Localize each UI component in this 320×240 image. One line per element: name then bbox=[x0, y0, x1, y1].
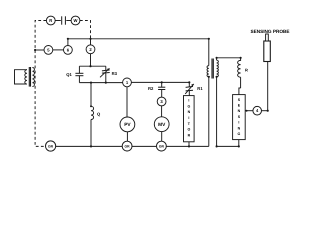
wire secondary bottom to sensing box bbox=[217, 77, 239, 147]
svg-text:R1: R1 bbox=[197, 86, 203, 91]
wire upper rail of Q1/R3 network bbox=[79, 65, 105, 67]
wire T2 primary bottom to bottom rail bbox=[208, 77, 210, 147]
node circle2 branch joins upper rail bbox=[89, 65, 91, 67]
svg-text:G: G bbox=[238, 132, 241, 136]
relay coil R bbox=[238, 58, 241, 77]
transformer T1 core bbox=[28, 67, 30, 87]
wire 2 down to network bbox=[90, 54, 92, 66]
svg-text:MV: MV bbox=[158, 122, 166, 128]
wire 5 to 6 bbox=[53, 49, 64, 51]
svg-text:R3: R3 bbox=[112, 71, 118, 76]
wire sensing box to terminal 4 bbox=[245, 110, 253, 112]
node at rail over 6 bbox=[67, 38, 69, 40]
wire coil to bottom rail bbox=[90, 120, 92, 147]
label SENSING vertical bbox=[238, 98, 241, 136]
svg-text:GR: GR bbox=[159, 145, 165, 149]
node lower rail / R3 bbox=[105, 82, 107, 84]
svg-text:I: I bbox=[238, 121, 239, 125]
trimmer resistor R1 bbox=[188, 81, 190, 83]
sensing probe body bbox=[264, 41, 271, 62]
svg-text:PV: PV bbox=[124, 122, 131, 128]
transformer T2 secondary winding bbox=[217, 60, 219, 77]
svg-text:I: I bbox=[188, 116, 189, 120]
svg-text:G: G bbox=[188, 104, 191, 108]
transformer T1 primary winding bbox=[25, 70, 27, 84]
meter PV bbox=[120, 117, 135, 132]
wire 3 to MV bbox=[161, 106, 163, 117]
svg-text:R: R bbox=[245, 67, 248, 72]
svg-text:SENSING PROBE: SENSING PROBE bbox=[250, 29, 289, 34]
capacitor R2 bbox=[161, 82, 163, 87]
wire: dashed from W down to terminal 2 bbox=[80, 21, 91, 39]
capacitor Q1 bbox=[78, 66, 80, 73]
svg-text:Q1: Q1 bbox=[66, 72, 72, 77]
wire middle rail from 1 to R1 bbox=[131, 81, 189, 83]
svg-text:N: N bbox=[188, 110, 191, 114]
node T2 secondary top bbox=[216, 57, 218, 59]
wire ignitor to bottom rail bbox=[188, 142, 190, 147]
wire secondary top to relay coil bbox=[217, 58, 241, 60]
svg-text:R: R bbox=[188, 133, 191, 137]
node bottom rail / coil branch bbox=[90, 145, 92, 147]
node bottom rail / ignitor branch bbox=[188, 145, 190, 147]
node at coil R top bbox=[240, 57, 242, 59]
wire MV to GR bbox=[161, 132, 163, 142]
transformer T1 secondary winding bbox=[32, 68, 34, 87]
sensing probe tip bbox=[266, 34, 269, 41]
terminal 4 bbox=[253, 106, 262, 115]
terminal R bbox=[46, 16, 55, 25]
terminal GR left bbox=[46, 141, 56, 151]
svg-text:O: O bbox=[188, 128, 191, 132]
wire down to coil Q bbox=[90, 83, 92, 107]
wire: dashed thermostat field wiring left loop bbox=[35, 21, 46, 147]
transformer T2 primary top lead bbox=[208, 39, 210, 66]
meter MV bbox=[154, 117, 169, 132]
wire 1 to PV bbox=[126, 87, 128, 117]
wire PV to GR bbox=[126, 132, 128, 141]
sensing box bbox=[233, 95, 246, 140]
wire top rail bbox=[68, 38, 209, 40]
svg-text:N: N bbox=[238, 109, 241, 113]
trimmer capacitor R3 bbox=[105, 66, 107, 70]
wire contact to W bbox=[66, 20, 71, 22]
wire to terminal 5 bbox=[35, 49, 44, 51]
terminal W bbox=[71, 16, 80, 25]
node lower rail / down branch bbox=[90, 82, 92, 84]
node at rail corner bbox=[208, 38, 210, 40]
wire lower rail of network to node 1 bbox=[79, 82, 122, 84]
wire 4 to probe riser bbox=[262, 110, 268, 112]
terminal GR under PV bbox=[122, 141, 132, 151]
wire 6 up to top rail bbox=[67, 39, 69, 46]
inductor Q bbox=[91, 106, 94, 119]
wire bottom rail bbox=[55, 145, 122, 147]
thermostat contact bars bbox=[61, 16, 63, 24]
terminal 5 bbox=[44, 46, 53, 55]
svg-text:I: I bbox=[188, 99, 189, 103]
svg-text:GR: GR bbox=[125, 145, 131, 149]
svg-text:N: N bbox=[238, 126, 241, 130]
svg-text:R2: R2 bbox=[148, 86, 154, 91]
wire R to contact bbox=[55, 20, 61, 22]
transformer T1 primary bracket lead bbox=[15, 70, 28, 84]
node at rail over 2 bbox=[89, 38, 91, 40]
svg-text:R: R bbox=[49, 18, 52, 23]
wire probe riser bbox=[267, 62, 269, 111]
wire coil R to sensing box bbox=[240, 77, 242, 88]
transformer T2 core bbox=[211, 59, 213, 79]
svg-text:GR: GR bbox=[48, 144, 54, 148]
wire rail stub to circle 2 bbox=[90, 39, 92, 45]
label IGNITOR vertical bbox=[188, 99, 191, 138]
svg-text:W: W bbox=[74, 18, 78, 23]
ignitor box U1 bbox=[184, 96, 195, 142]
terminal 3 bbox=[157, 97, 166, 106]
node junction on dashed riser bbox=[34, 49, 36, 51]
node T2 primary bottom bbox=[208, 76, 210, 78]
terminal letters bbox=[47, 18, 259, 113]
terminal GR under MV bbox=[157, 141, 167, 151]
terminal 1 bbox=[123, 78, 132, 87]
terminal 6 bbox=[64, 46, 73, 55]
terminal 2 bbox=[86, 45, 95, 54]
node T2 secondary bottom bbox=[216, 76, 218, 78]
node middle rail / R2 branch bbox=[161, 81, 163, 83]
transformer T2 primary winding bbox=[207, 66, 209, 77]
